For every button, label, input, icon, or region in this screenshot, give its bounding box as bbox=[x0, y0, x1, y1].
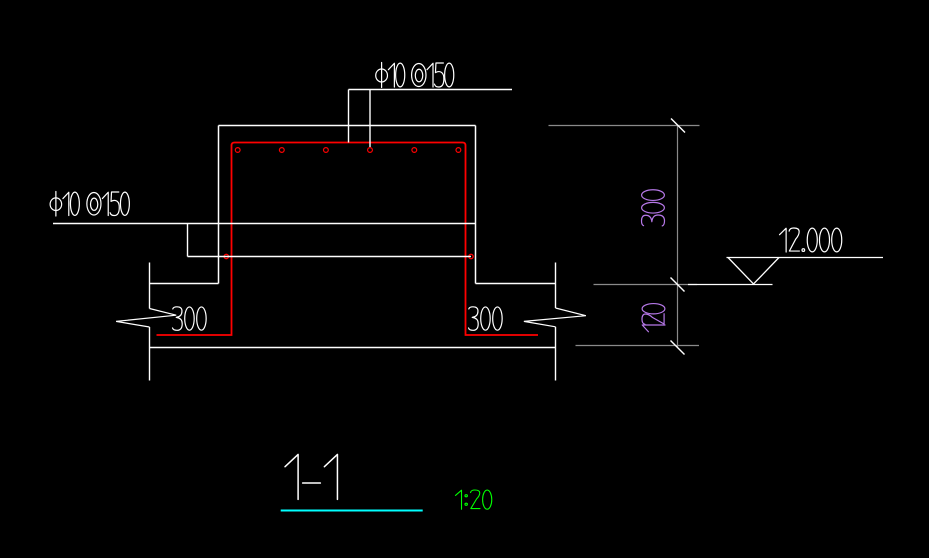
stirrup rebar outline bbox=[157, 143, 539, 336]
left leader step vertical bbox=[187, 224, 189, 257]
dim tick top bbox=[671, 119, 685, 133]
text "300" left bbox=[173, 307, 207, 331]
dim text "120" vertical bbox=[642, 304, 665, 332]
top rebar bar circle 1 bbox=[235, 148, 240, 153]
rebar label top "Φ10 @150" bbox=[376, 63, 454, 88]
level symbol top line bbox=[727, 257, 884, 259]
level symbol triangle bbox=[728, 258, 779, 285]
mid rebar bar circle left bbox=[224, 254, 228, 258]
slab right cut edge lower bbox=[555, 327, 557, 381]
mid rebar bar circle right bbox=[469, 254, 473, 258]
section title "1-1" bbox=[285, 454, 337, 499]
top rebar bar circle 3 bbox=[324, 148, 329, 153]
dim text "300" vertical bbox=[642, 190, 665, 226]
text "300" right bbox=[469, 307, 503, 331]
top rebar bar circle 5 bbox=[412, 148, 417, 153]
dim tick middle bbox=[671, 278, 685, 292]
slab right cut edge upper bbox=[555, 263, 557, 309]
slab bottom surface bbox=[150, 347, 556, 349]
top rebar bar circle 2 bbox=[279, 148, 284, 153]
top rebar bar circle 6 bbox=[456, 148, 461, 153]
title underline bbox=[281, 510, 423, 512]
top leader horizontal bbox=[349, 89, 513, 91]
dim extension line bottom bbox=[576, 345, 700, 347]
dim extension line middle bbox=[594, 284, 698, 286]
level symbol base line bbox=[688, 284, 773, 286]
rebar label left "Φ10 @150" bbox=[50, 192, 129, 216]
left break symbol bbox=[116, 309, 176, 328]
level value "12.000" bbox=[780, 228, 842, 252]
dim tick bottom bbox=[671, 341, 685, 355]
beam outline left side bbox=[218, 126, 220, 284]
left leader horizontal 2 bbox=[188, 256, 472, 258]
dim line vertical bbox=[677, 126, 679, 348]
beam outline right side bbox=[475, 126, 477, 284]
dim extension line top bbox=[549, 125, 700, 127]
slab top surface left bbox=[150, 283, 219, 285]
beam outline top edge bbox=[219, 125, 476, 127]
right break symbol bbox=[524, 308, 586, 327]
left leader horizontal 1 bbox=[53, 223, 476, 225]
top leader drop 1 bbox=[348, 90, 350, 143]
top rebar bar circle 4 bbox=[368, 148, 373, 153]
scale text "1:20" bbox=[455, 490, 491, 509]
slab left cut edge upper bbox=[149, 263, 151, 309]
top leader drop 2 bbox=[369, 90, 371, 148]
slab top surface right bbox=[476, 283, 556, 285]
slab left cut edge lower bbox=[149, 327, 151, 381]
